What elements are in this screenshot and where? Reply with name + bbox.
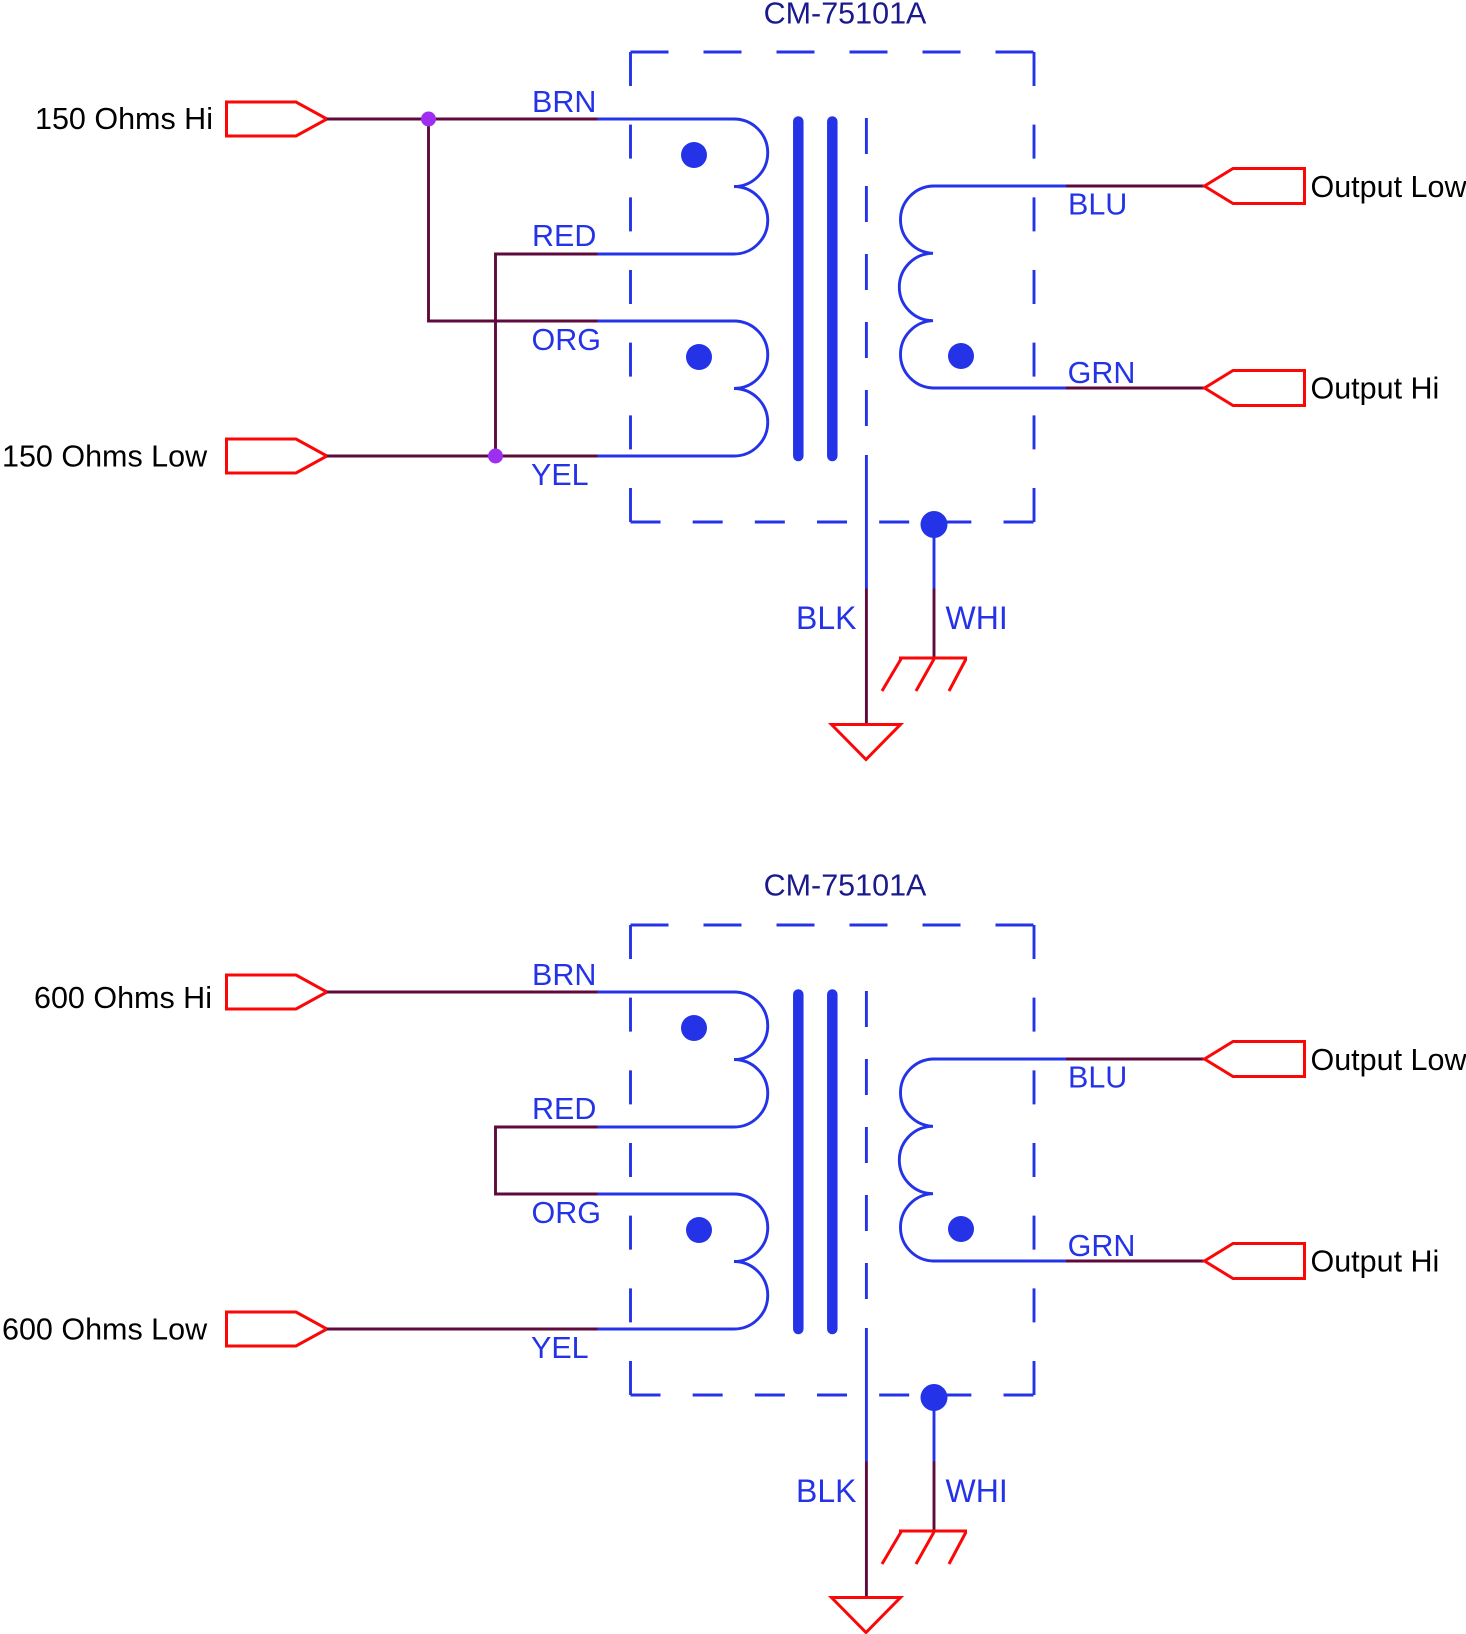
T1 phase dot secondary: [948, 343, 974, 369]
port arrow Output Hi: [1205, 371, 1305, 406]
T2 primary winding 2 (ORG-YEL): [598, 1194, 768, 1329]
wire WHI to chassis: [933, 589, 936, 660]
svg-text:600 Ohms Hi: 600 Ohms Hi: [34, 981, 212, 1015]
svg-text:BRN: BRN: [532, 85, 596, 119]
ground symbol (earth triangle): [832, 725, 901, 760]
wire 600 Ohms Hi to BRN: [327, 991, 598, 994]
svg-text:WHI: WHI: [946, 600, 1008, 636]
svg-text:RED: RED: [532, 219, 596, 253]
jumper wire BRN junction to ORG: [429, 119, 598, 321]
wire BLU to Output Low: [1066, 185, 1205, 188]
port arrow Output Low (T2): [1205, 1042, 1305, 1077]
port arrow Output Low: [1205, 169, 1305, 204]
T1 core line left: [793, 122, 804, 457]
T2 electrostatic shield (dashed): [865, 991, 868, 1299]
transformer T1 boundary dashed box: [631, 52, 1035, 522]
svg-text:600 Ohms Low: 600 Ohms Low: [2, 1313, 208, 1347]
svg-text:RED: RED: [532, 1092, 596, 1126]
port arrow 600 Ohms Low: [227, 1312, 328, 1346]
T2 phase dot primary 1: [681, 1015, 707, 1041]
wire WHI to chassis (bottom): [933, 1462, 936, 1533]
wire 150 Ohms Low to YEL: [327, 455, 598, 458]
T2 secondary winding (BLU-GRN): [899, 1059, 1066, 1261]
T2 pin BLK lead (blue): [865, 1328, 868, 1462]
T1 electrostatic shield (dashed): [865, 118, 868, 426]
T1 phase dot primary 1: [681, 142, 707, 168]
svg-text:BLK: BLK: [796, 600, 856, 636]
T2 primary winding 1 (BRN-RED): [598, 992, 768, 1127]
transformer T2 boundary dashed box: [631, 925, 1035, 1395]
T1 core line right: [827, 122, 838, 457]
svg-text:150 Ohms Low: 150 Ohms Low: [2, 440, 208, 474]
wire BLK to ground: [865, 589, 868, 727]
junction dot on Low wire: [488, 449, 503, 464]
T1 phase dot primary 2: [686, 344, 712, 370]
wire BLK to ground (bottom): [865, 1462, 868, 1600]
svg-text:BLU: BLU: [1068, 188, 1127, 222]
port arrow 150 Ohms Low: [227, 439, 328, 473]
port arrow 150 Ohms Hi: [227, 102, 328, 136]
T2 phase dot secondary: [948, 1216, 974, 1242]
T1 pin BLK lead (blue): [865, 455, 868, 589]
T1 primary winding 1 (BRN-RED): [598, 119, 768, 254]
svg-text:CM-75101A: CM-75101A: [764, 869, 927, 903]
port arrow Output Hi (T2): [1205, 1244, 1305, 1279]
chassis ground symbol: [882, 658, 967, 691]
svg-text:Output Hi: Output Hi: [1311, 1245, 1440, 1279]
svg-text:Output Low: Output Low: [1311, 170, 1466, 204]
ground symbol (earth triangle, bottom): [832, 1598, 901, 1633]
wire GRN to Output Hi (T2): [1066, 1260, 1205, 1263]
T2 phase dot primary 2: [686, 1217, 712, 1243]
wire GRN to Output Hi: [1066, 387, 1205, 390]
T2 pin WHI lead (blue): [933, 1398, 936, 1462]
jumper wire RED to Low junction: [496, 254, 598, 456]
wire BLU to Output Low (T2): [1066, 1058, 1205, 1061]
svg-text:BLK: BLK: [796, 1473, 856, 1509]
svg-text:Output Hi: Output Hi: [1311, 372, 1440, 406]
T2 core line right: [827, 995, 838, 1330]
T1 primary winding 2 (ORG-YEL): [598, 321, 768, 456]
svg-text:CM-75101A: CM-75101A: [764, 0, 927, 31]
T1 secondary winding (BLU-GRN): [899, 186, 1066, 388]
svg-text:BLU: BLU: [1068, 1061, 1127, 1095]
svg-text:WHI: WHI: [946, 1473, 1008, 1509]
svg-text:Output Low: Output Low: [1311, 1043, 1466, 1077]
svg-text:GRN: GRN: [1068, 356, 1136, 390]
wire 150 Ohms Hi to BRN: [327, 118, 598, 121]
svg-text:GRN: GRN: [1068, 1229, 1136, 1263]
svg-text:BRN: BRN: [532, 958, 596, 992]
svg-text:YEL: YEL: [531, 458, 589, 492]
T1 WHI shield tap dot: [921, 511, 948, 538]
jumper wire RED to ORG: [496, 1127, 598, 1194]
svg-text:ORG: ORG: [532, 323, 601, 357]
port arrow 600 Ohms Hi: [227, 975, 328, 1009]
junction dot on Hi wire: [421, 112, 436, 127]
svg-text:150 Ohms Hi: 150 Ohms Hi: [35, 102, 213, 136]
chassis ground symbol (bottom): [882, 1531, 967, 1564]
wire 600 Ohms Low to YEL: [327, 1328, 598, 1331]
svg-text:ORG: ORG: [532, 1196, 601, 1230]
svg-text:YEL: YEL: [531, 1331, 589, 1365]
T1 pin WHI lead (blue): [933, 525, 936, 589]
T2 WHI shield tap dot: [921, 1384, 948, 1411]
T2 core line left: [793, 995, 804, 1330]
